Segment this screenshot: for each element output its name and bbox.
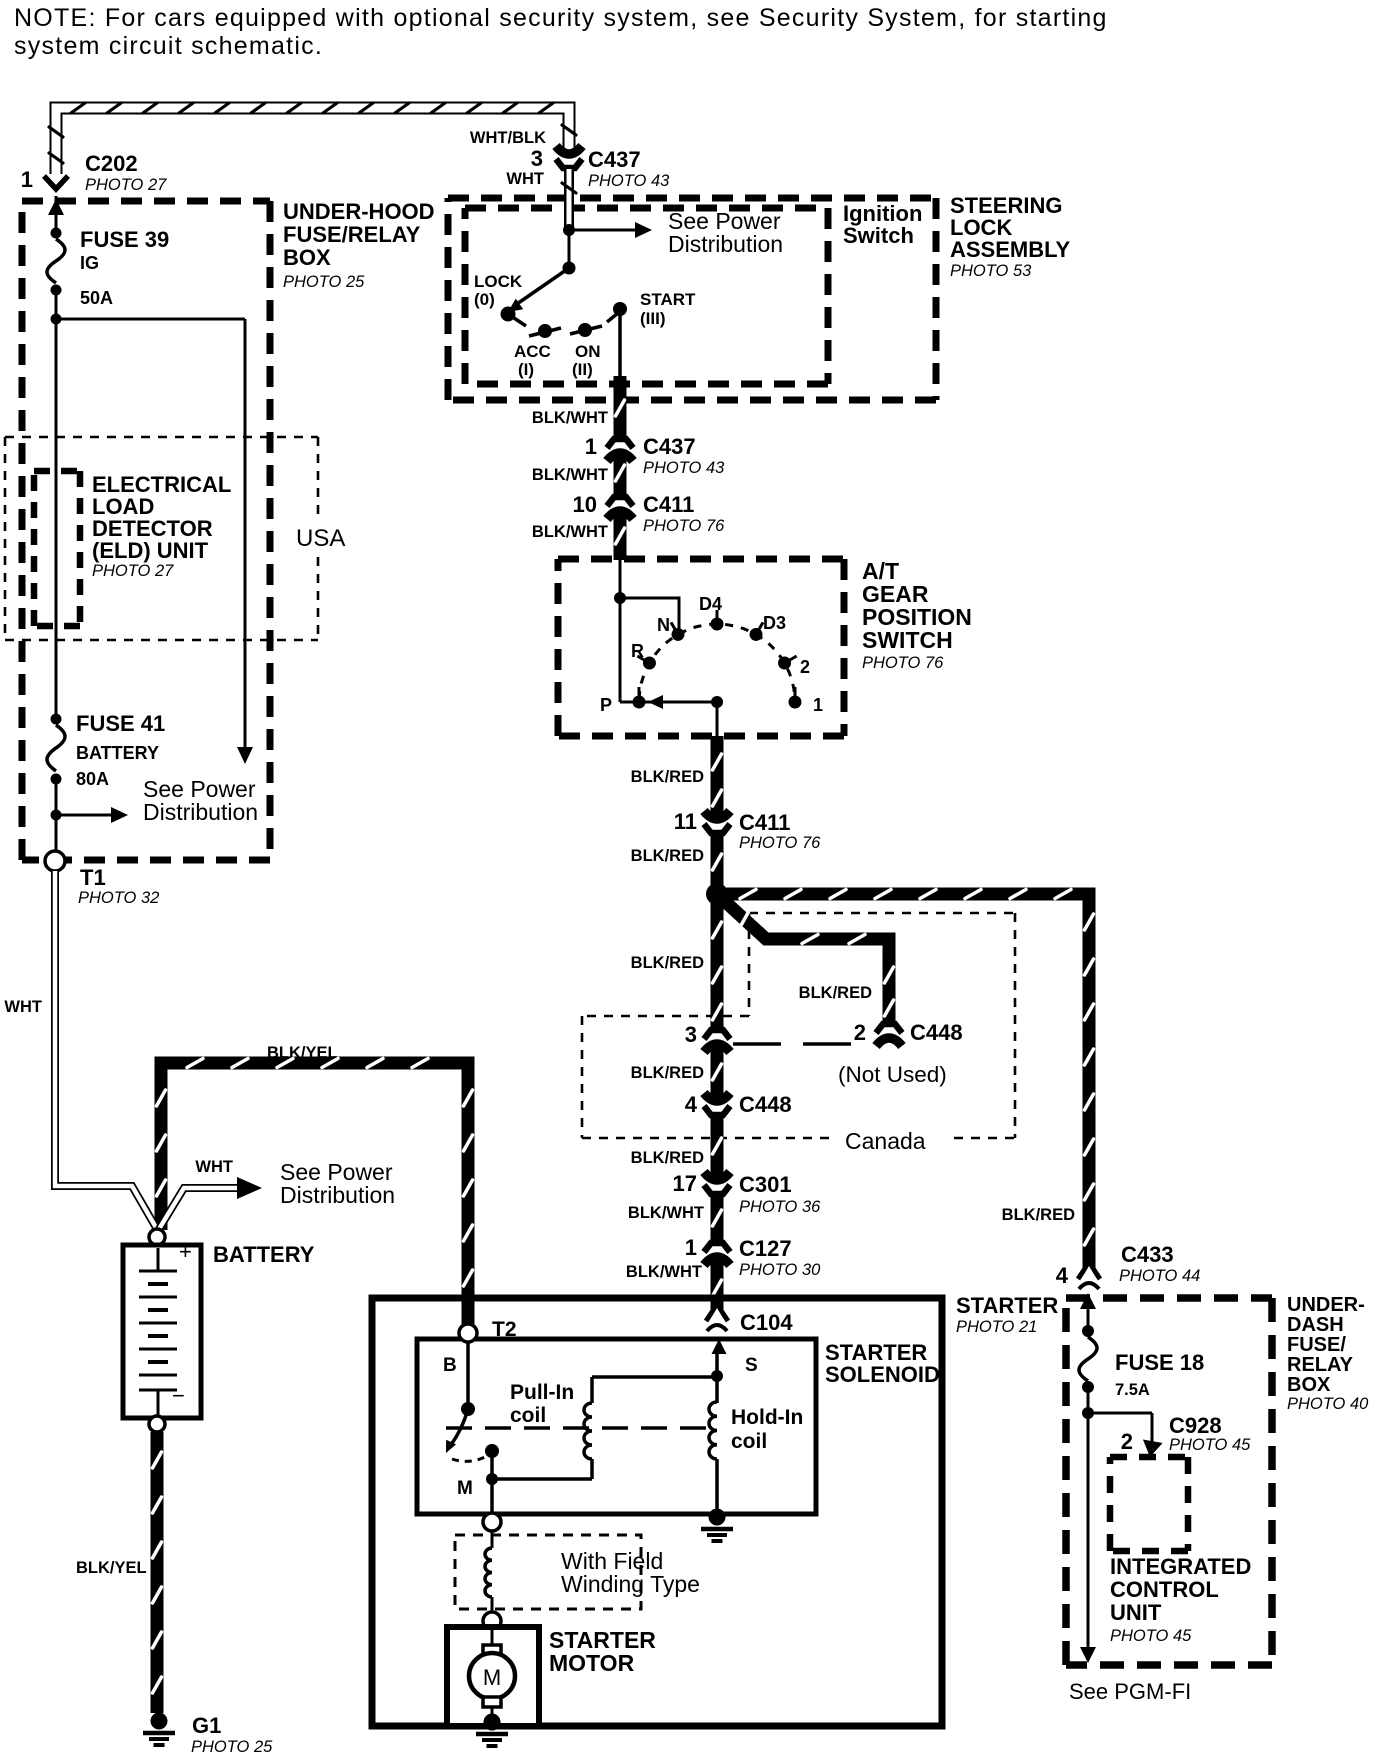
- svg-text:Pull-In: Pull-In: [510, 1381, 574, 1404]
- svg-text:BLK/YEL: BLK/YEL: [76, 1559, 147, 1577]
- svg-text:11: 11: [674, 809, 697, 834]
- svg-text:M: M: [483, 1665, 501, 1690]
- svg-text:BLK/RED: BLK/RED: [799, 984, 872, 1002]
- svg-text:C411: C411: [739, 810, 790, 835]
- svg-text:FUSE 41: FUSE 41: [76, 711, 165, 736]
- svg-text:C437: C437: [588, 147, 641, 172]
- svg-text:USA: USA: [296, 525, 345, 552]
- svg-text:C301: C301: [739, 1172, 792, 1197]
- svg-text:T2: T2: [492, 1318, 517, 1341]
- svg-text:Distribution: Distribution: [143, 799, 258, 825]
- svg-text:PHOTO 43: PHOTO 43: [588, 172, 670, 190]
- svg-text:−: −: [172, 1383, 185, 1408]
- svg-text:S: S: [745, 1355, 758, 1376]
- svg-text:C437: C437: [643, 434, 696, 459]
- svg-text:(0): (0): [474, 290, 495, 309]
- svg-text:DASH: DASH: [1287, 1314, 1344, 1336]
- svg-text:+: +: [179, 1239, 192, 1264]
- svg-text:2: 2: [1121, 1429, 1133, 1454]
- svg-text:Switch: Switch: [843, 223, 914, 248]
- svg-text:coil: coil: [731, 1430, 767, 1453]
- svg-text:C411: C411: [643, 492, 694, 517]
- svg-text:C433: C433: [1121, 1242, 1174, 1267]
- svg-text:C127: C127: [739, 1236, 792, 1261]
- svg-text:7.5A: 7.5A: [1115, 1381, 1150, 1399]
- svg-text:BLK/WHT: BLK/WHT: [532, 466, 608, 484]
- svg-text:PHOTO 53: PHOTO 53: [950, 262, 1032, 280]
- svg-text:WHT: WHT: [195, 1158, 233, 1176]
- svg-text:INTEGRATED: INTEGRATED: [1110, 1554, 1251, 1579]
- svg-text:PHOTO 36: PHOTO 36: [739, 1198, 821, 1216]
- svg-text:C104: C104: [740, 1310, 793, 1335]
- svg-text:START: START: [640, 290, 696, 309]
- svg-text:PHOTO 44: PHOTO 44: [1119, 1267, 1200, 1285]
- svg-text:D4: D4: [699, 594, 722, 614]
- svg-text:coil: coil: [510, 1404, 546, 1427]
- svg-text:N: N: [657, 615, 670, 635]
- svg-text:(I): (I): [518, 360, 534, 379]
- svg-text:PHOTO 27: PHOTO 27: [92, 562, 174, 580]
- svg-text:ON: ON: [575, 342, 601, 361]
- svg-text:50A: 50A: [80, 288, 113, 308]
- svg-text:CONTROL: CONTROL: [1110, 1577, 1219, 1602]
- svg-text:FUSE/RELAY: FUSE/RELAY: [283, 222, 421, 247]
- svg-text:Hold-In: Hold-In: [731, 1406, 803, 1429]
- svg-text:ASSEMBLY: ASSEMBLY: [950, 237, 1071, 262]
- svg-text:C202: C202: [85, 151, 138, 176]
- svg-text:3: 3: [685, 1022, 697, 1047]
- svg-text:WHT: WHT: [4, 998, 42, 1016]
- svg-text:BOX: BOX: [283, 245, 331, 270]
- svg-text:(Not Used): (Not Used): [838, 1062, 947, 1087]
- svg-text:BLK/RED: BLK/RED: [631, 954, 704, 972]
- svg-text:WHT/BLK: WHT/BLK: [470, 129, 546, 147]
- svg-text:FUSE 39: FUSE 39: [80, 227, 169, 252]
- svg-text:PHOTO 40: PHOTO 40: [1287, 1395, 1369, 1413]
- svg-text:RELAY: RELAY: [1287, 1354, 1354, 1376]
- svg-text:PHOTO 76: PHOTO 76: [739, 834, 821, 852]
- svg-text:UNDER-HOOD: UNDER-HOOD: [283, 199, 435, 224]
- svg-text:(II): (II): [572, 360, 593, 379]
- svg-text:PHOTO 45: PHOTO 45: [1169, 1436, 1251, 1454]
- svg-text:10: 10: [573, 492, 597, 517]
- svg-text:1: 1: [21, 167, 33, 192]
- svg-text:Distribution: Distribution: [668, 231, 783, 257]
- svg-text:PHOTO 76: PHOTO 76: [643, 517, 725, 535]
- svg-text:BLK/WHT: BLK/WHT: [628, 1204, 704, 1222]
- svg-text:Winding Type: Winding Type: [561, 1571, 700, 1597]
- svg-text:WHT: WHT: [506, 170, 544, 188]
- svg-text:NOTE: For cars equipped with o: NOTE: For cars equipped with optional se…: [14, 4, 1108, 32]
- svg-text:FUSE 18: FUSE 18: [1115, 1350, 1204, 1375]
- svg-text:IG: IG: [80, 253, 99, 273]
- svg-text:PHOTO 30: PHOTO 30: [739, 1261, 821, 1279]
- svg-text:UNDER-: UNDER-: [1287, 1294, 1365, 1316]
- svg-text:BLK/RED: BLK/RED: [631, 768, 704, 786]
- svg-text:4: 4: [685, 1092, 698, 1117]
- svg-text:BLK/WHT: BLK/WHT: [532, 523, 608, 541]
- svg-text:PHOTO 76: PHOTO 76: [862, 654, 944, 672]
- svg-text:80A: 80A: [76, 769, 109, 789]
- svg-text:(ELD) UNIT: (ELD) UNIT: [92, 538, 209, 563]
- svg-text:system circuit schematic.: system circuit schematic.: [14, 32, 323, 60]
- svg-text:R: R: [631, 641, 644, 661]
- svg-text:4: 4: [1056, 1263, 1069, 1288]
- svg-text:PHOTO 45: PHOTO 45: [1110, 1627, 1192, 1645]
- svg-text:G1: G1: [192, 1713, 221, 1738]
- svg-text:B: B: [443, 1355, 457, 1376]
- svg-text:PHOTO 25: PHOTO 25: [283, 273, 365, 291]
- svg-text:LOCK: LOCK: [474, 272, 523, 291]
- svg-text:C448: C448: [739, 1092, 792, 1117]
- svg-text:(III): (III): [640, 309, 666, 328]
- svg-text:1: 1: [585, 434, 597, 459]
- svg-text:UNIT: UNIT: [1110, 1600, 1162, 1625]
- svg-text:PHOTO 43: PHOTO 43: [643, 459, 725, 477]
- svg-text:D3: D3: [763, 613, 786, 633]
- svg-text:PHOTO 27: PHOTO 27: [85, 176, 167, 194]
- svg-text:PHOTO 21: PHOTO 21: [956, 1318, 1037, 1336]
- svg-text:T1: T1: [80, 865, 106, 890]
- svg-text:SWITCH: SWITCH: [862, 627, 953, 653]
- svg-text:MOTOR: MOTOR: [549, 1650, 635, 1676]
- svg-text:BOX: BOX: [1287, 1374, 1331, 1396]
- svg-text:STARTER: STARTER: [956, 1293, 1058, 1318]
- svg-text:See PGM-FI: See PGM-FI: [1069, 1679, 1191, 1704]
- svg-text:Distribution: Distribution: [280, 1182, 395, 1208]
- svg-text:C928: C928: [1169, 1413, 1222, 1438]
- svg-text:FUSE/: FUSE/: [1287, 1334, 1346, 1356]
- svg-text:1: 1: [685, 1235, 697, 1260]
- svg-text:BLK/WHT: BLK/WHT: [532, 409, 608, 427]
- svg-text:BLK/WHT: BLK/WHT: [626, 1263, 702, 1281]
- svg-text:BATTERY: BATTERY: [213, 1242, 315, 1267]
- svg-text:PHOTO 32: PHOTO 32: [78, 889, 159, 907]
- svg-text:BLK/RED: BLK/RED: [631, 1149, 704, 1167]
- svg-text:BATTERY: BATTERY: [76, 743, 159, 763]
- svg-text:BLK/RED: BLK/RED: [1002, 1206, 1075, 1224]
- svg-text:SOLENOID: SOLENOID: [825, 1362, 940, 1387]
- svg-text:C448: C448: [910, 1020, 963, 1045]
- svg-text:PHOTO 25: PHOTO 25: [191, 1738, 273, 1756]
- svg-text:P: P: [600, 695, 612, 715]
- svg-text:Canada: Canada: [845, 1128, 926, 1154]
- svg-text:2: 2: [854, 1020, 866, 1045]
- svg-text:BLK/RED: BLK/RED: [631, 1064, 704, 1082]
- svg-text:BLK/RED: BLK/RED: [631, 847, 704, 865]
- svg-text:17: 17: [673, 1171, 697, 1196]
- svg-text:3: 3: [531, 146, 543, 171]
- svg-text:1: 1: [813, 695, 823, 715]
- svg-text:M: M: [457, 1478, 473, 1499]
- svg-text:ACC: ACC: [514, 342, 551, 361]
- svg-text:2: 2: [800, 657, 810, 677]
